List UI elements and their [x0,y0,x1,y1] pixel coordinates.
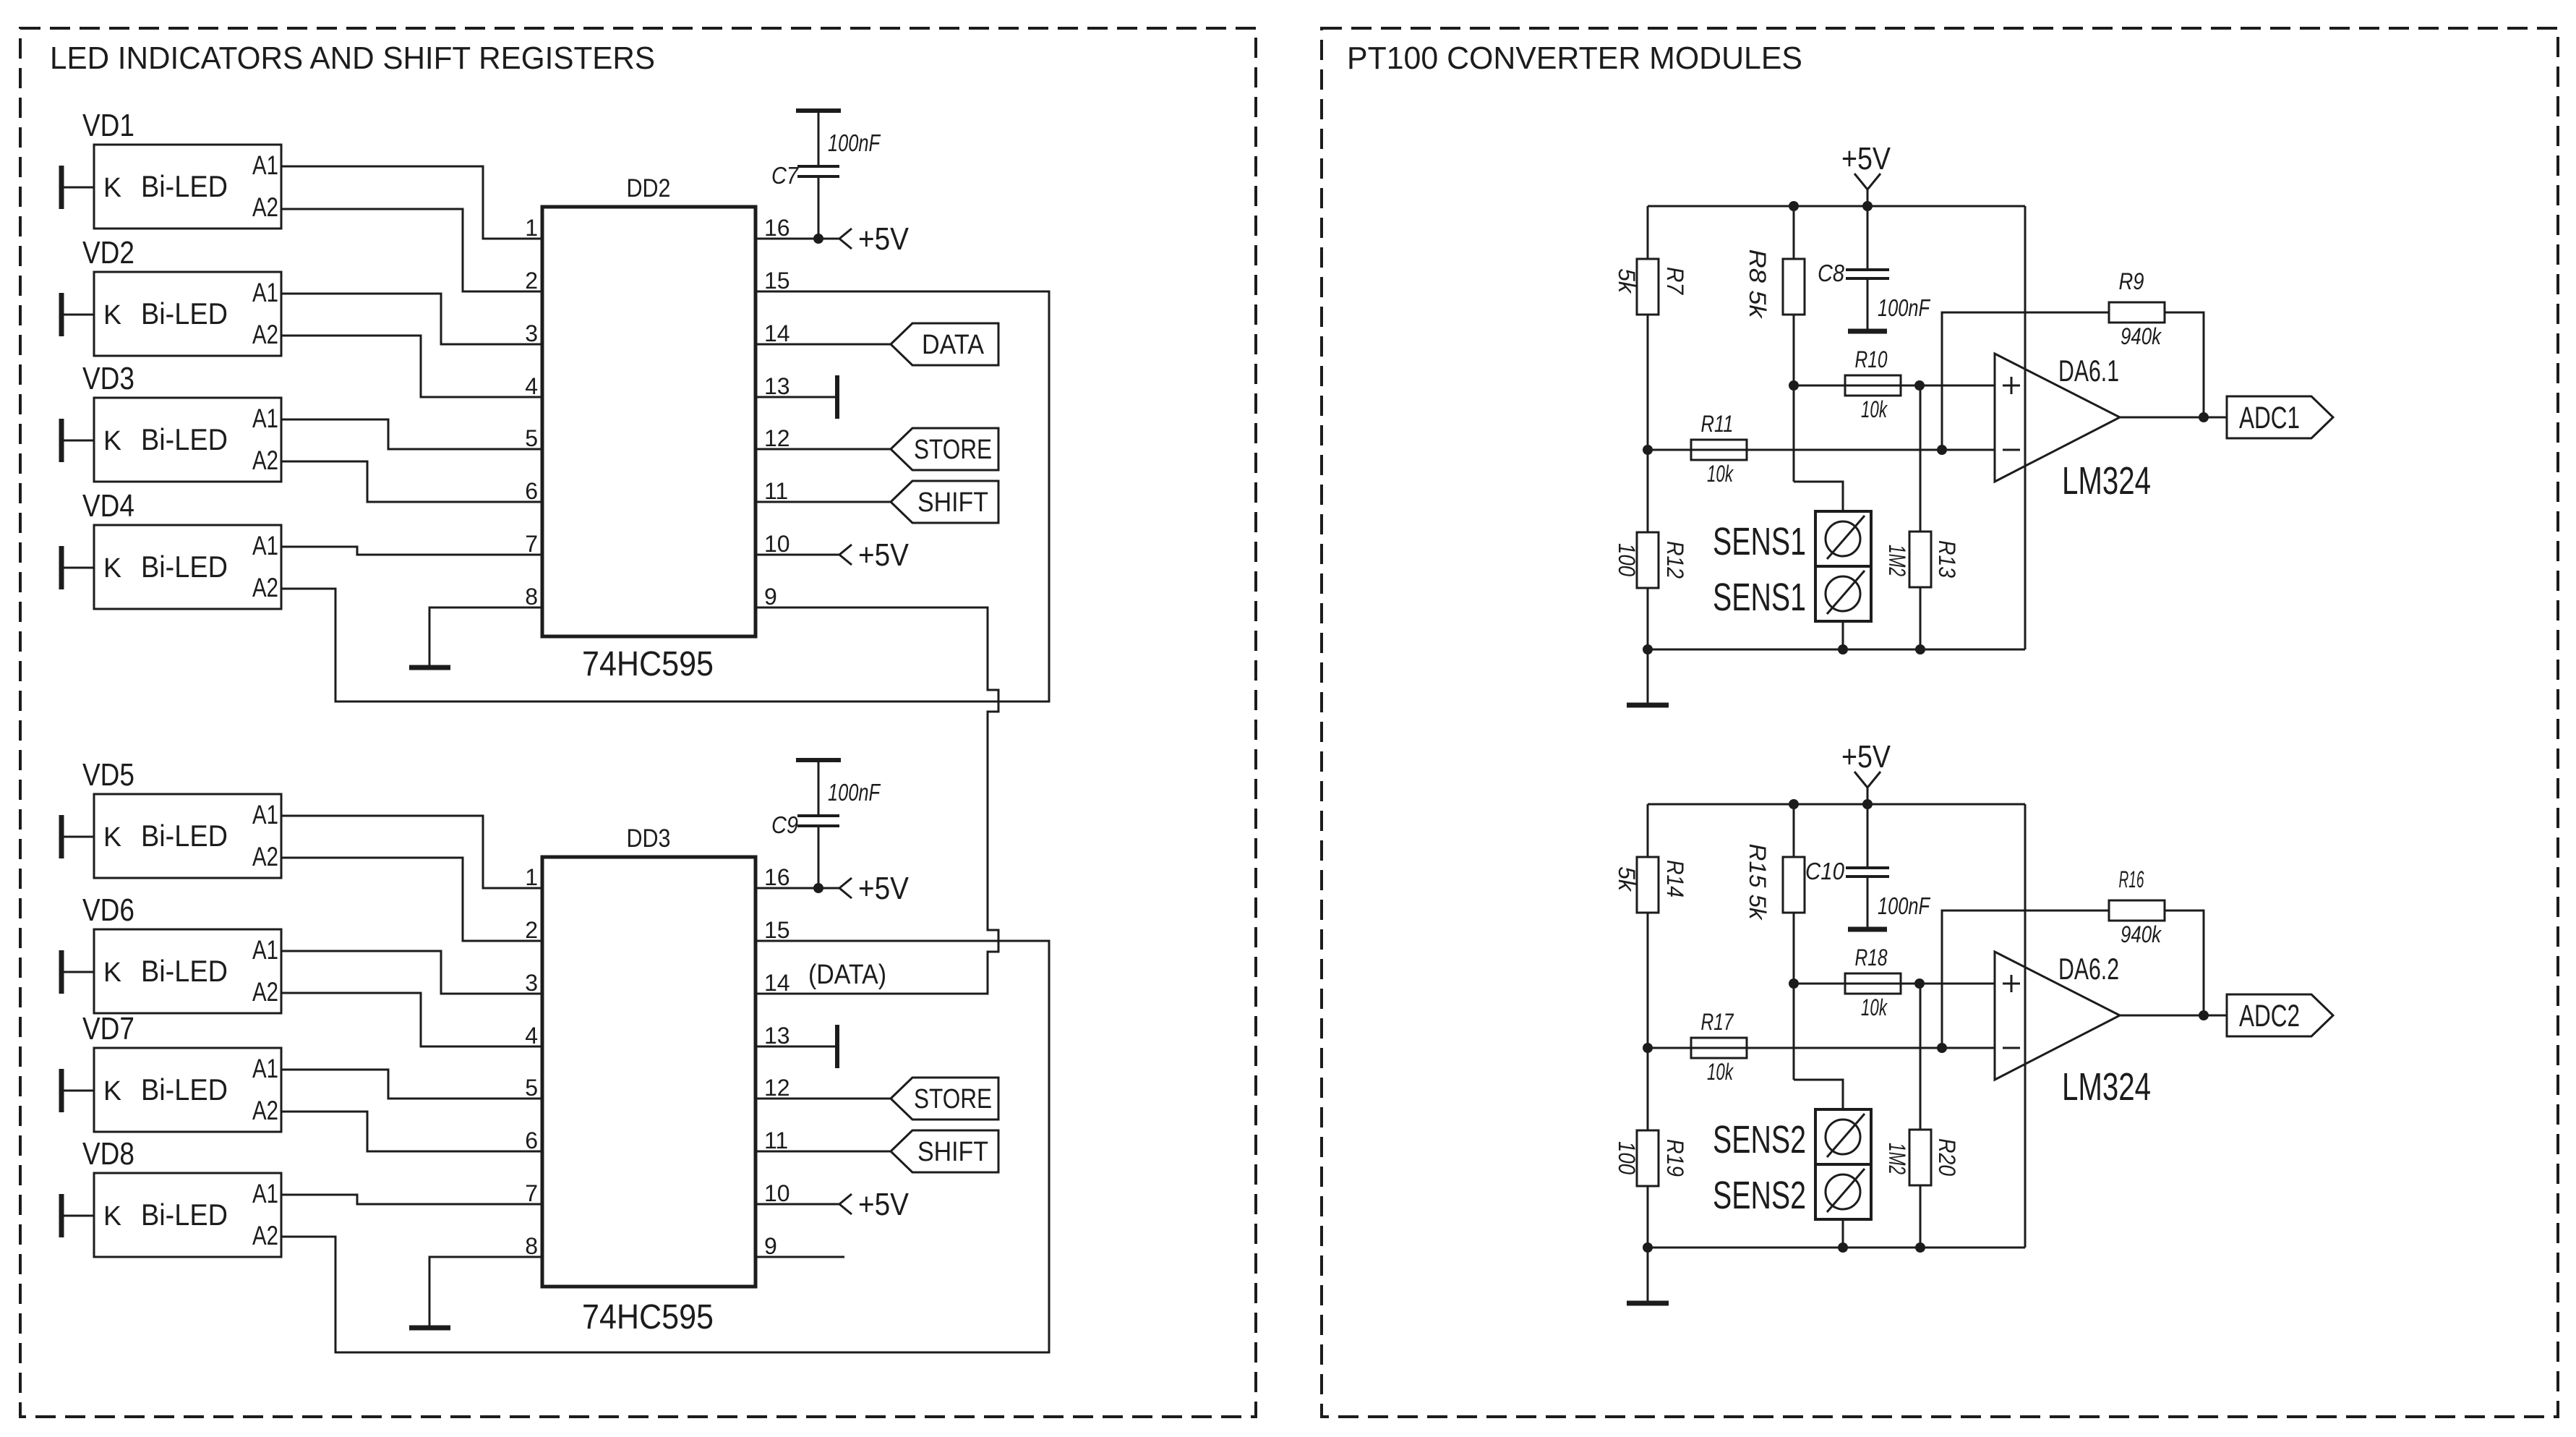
svg-text:R13: R13 [1934,540,1960,578]
svg-text:Bi-LED: Bi-LED [141,550,228,584]
capacitor C8 100nF [1818,206,1930,331]
flag STORE at DD2 pin 12 [756,428,998,470]
shift register DD2 74HC595 [542,174,756,683]
svg-text:ADC2: ADC2 [2239,999,2300,1033]
svg-text:SENS1: SENS1 [1713,520,1806,563]
svg-text:SENS1: SENS1 [1713,576,1806,619]
svg-text:1: 1 [525,864,538,890]
svg-text:VD3: VD3 [82,361,134,396]
svg-text:16: 16 [764,215,790,241]
svg-text:SHIFT: SHIFT [917,1137,988,1167]
svg-text:R17: R17 [1701,1009,1734,1035]
svg-text:A2: A2 [252,977,278,1007]
svg-text:+5V: +5V [858,537,910,573]
svg-text:+5V: +5V [858,1187,910,1222]
svg-text:5: 5 [525,425,538,451]
svg-text:K: K [103,173,121,203]
svg-text:9: 9 [764,1233,777,1259]
feedback wire module 2 [1942,911,2109,1048]
junction DD3 pin16 / C9 [813,883,823,893]
svg-text:15: 15 [764,268,790,294]
svg-text:+5V: +5V [1841,141,1891,176]
flag ADC1 [2227,396,2333,438]
junction R10/R13 module 1 [1914,380,1925,391]
svg-text:74HC595: 74HC595 [582,1298,714,1336]
wire VD1 A2 to DD2 pin2 [281,209,542,291]
svg-text:100nF: 100nF [1878,294,1930,321]
svg-text:K: K [103,1201,121,1232]
junction output/feedback module 1 [2199,412,2209,422]
bi-led VD8 [82,1136,281,1257]
svg-text:K: K [103,958,121,988]
svg-text:ADC1: ADC1 [2239,401,2300,435]
svg-text:R20: R20 [1934,1138,1960,1176]
resistor R18 10k [1794,945,1995,1020]
junction R14/R17 module 2 [1643,1043,1653,1053]
shift register DD3 74HC595 [542,824,756,1336]
svg-text:10k: 10k [1707,461,1734,487]
flag STORE at DD3 pin 12 [756,1078,998,1120]
svg-text:K: K [103,1076,121,1106]
capacitor C9 100nF [771,760,881,890]
flag ADC2 [2227,994,2333,1036]
svg-text:12: 12 [764,425,790,451]
cathode lead VD2 [61,293,94,336]
svg-text:Bi-LED: Bi-LED [141,1198,228,1232]
svg-text:Bi-LED: Bi-LED [141,422,228,456]
bi-led VD2 [82,235,281,356]
resistor R17 10k [1648,1009,1995,1085]
no-connect DD2 pin 13 [756,375,837,419]
svg-text:R10: R10 [1855,346,1888,372]
+5V at DD3 pin 16 [756,871,910,906]
svg-text:R11: R11 [1701,411,1734,437]
junction R18/R20 module 2 [1914,978,1925,989]
svg-text:Bi-LED: Bi-LED [141,1073,228,1106]
wire DD2 pin 15 [756,291,1049,293]
capacitor C7 100nF [771,111,881,240]
wire VD5 A1 to DD3 pin1 [281,816,542,888]
svg-text:A1: A1 [252,278,278,307]
capacitor C10 100nF [1805,804,1930,929]
junction R7/R11 module 1 [1643,445,1653,455]
junction output/feedback module 2 [2199,1010,2209,1020]
svg-text:10: 10 [764,1180,790,1206]
svg-text:14: 14 [764,970,790,996]
svg-text:3: 3 [525,970,538,996]
svg-text:1M2: 1M2 [1884,545,1910,576]
junction feedback/R17 module 2 [1937,1043,1947,1053]
flag SHIFT at DD2 pin 11 [756,481,998,523]
feedback wire module 1 [1942,312,2109,450]
svg-text:A1: A1 [252,531,278,560]
svg-text:3: 3 [525,320,538,346]
svg-text:C10: C10 [1805,858,1845,884]
svg-text:1M2: 1M2 [1884,1143,1910,1174]
bi-led VD4 [82,488,281,609]
junction rail/R15 module 2 [1789,799,1799,809]
junction R15/R18 module 2 [1789,978,1799,989]
svg-text:LED INDICATORS AND SHIFT REGIS: LED INDICATORS AND SHIFT REGISTERS [50,40,655,76]
svg-text:2: 2 [525,268,538,294]
svg-text:10k: 10k [1861,994,1888,1020]
wire VD6 A2 to DD3 pin4 [281,993,542,1046]
svg-text:DD2: DD2 [627,174,671,202]
cathode lead VD4 [61,546,94,589]
svg-text:R14: R14 [1662,860,1688,897]
bi-led VD3 [82,361,281,482]
svg-text:100: 100 [1614,543,1640,576]
ground at DD3 pin 8 [409,1257,542,1328]
svg-text:7: 7 [525,1180,538,1206]
svg-text:R8 5k: R8 5k [1745,250,1771,320]
resistor R8 5k [1745,206,1843,511]
svg-text:SENS2: SENS2 [1713,1118,1806,1161]
+5V at DD2 pin 10 [756,537,910,573]
wire op-amp output module 1 [2120,417,2227,419]
supply vertical module 2 [2024,804,2027,1248]
resistor R10 10k [1794,346,1995,422]
right panel dashed border [1322,28,2558,1417]
wire VD3 A1 to DD2 pin5 [281,419,542,449]
junction R8/R10 module 1 [1789,380,1799,391]
svg-text:1: 1 [525,215,538,241]
svg-text:A1: A1 [252,150,278,180]
svg-text:VD2: VD2 [82,235,134,270]
bottom rail module 1 [1648,649,2025,651]
svg-text:14: 14 [764,320,790,346]
wire DD2 pin9 to DD3 pin14 serial data [756,607,998,994]
svg-text:+5V: +5V [858,221,910,257]
svg-text:R18: R18 [1855,945,1888,971]
svg-text:R7: R7 [1662,267,1688,295]
resistor R11 10k [1648,411,1995,487]
svg-text:A1: A1 [252,935,278,965]
wire VD6 A1 to DD3 pin3 [281,951,542,994]
op-amp DA6.1 LM324 [1995,354,2151,503]
op-amp DA6.2 LM324 [1995,952,2151,1109]
junction bottom-rail left module 1 [1643,644,1653,654]
wire VD4 A2 to DD2 pin15 [281,291,1049,702]
svg-text:R19: R19 [1662,1139,1688,1177]
wire VD2 A2 to DD2 pin4 [281,336,542,397]
wire VD7 A1 to DD3 pin5 [281,1070,542,1099]
svg-text:VD4: VD4 [82,488,134,524]
svg-text:13: 13 [764,1023,790,1049]
cathode lead VD5 [61,815,94,858]
svg-text:DATA: DATA [922,330,985,360]
svg-text:10: 10 [764,531,790,557]
svg-text:STORE: STORE [914,1084,992,1114]
svg-text:11: 11 [764,478,788,504]
bi-led VD1 [82,108,281,229]
svg-text:11: 11 [764,1127,788,1154]
junction DD2 pin16 / C7 [813,234,823,244]
svg-text:100nF: 100nF [828,779,881,806]
svg-text:A1: A1 [252,404,278,433]
svg-text:DA6.2: DA6.2 [2058,952,2119,986]
svg-text:VD7: VD7 [82,1011,134,1046]
svg-text:9: 9 [764,584,777,610]
junction feedback/R11 module 1 [1937,445,1947,455]
bottom rail module 2 [1648,1247,2025,1249]
+5V supply module 1 [1841,141,1891,206]
svg-text:VD8: VD8 [82,1136,134,1172]
resistor R13 1M2 [1884,385,1960,649]
svg-text:A1: A1 [252,800,278,830]
wire VD8 A1 to DD3 pin7 [281,1195,542,1204]
ground module 2 [1627,1248,1669,1303]
svg-text:7: 7 [525,531,538,557]
svg-text:12: 12 [764,1075,790,1101]
svg-text:Bi-LED: Bi-LED [141,169,228,203]
supply vertical module 1 [2024,206,2027,649]
resistor R15 5k [1745,804,1843,1109]
svg-text:A2: A2 [252,573,278,602]
svg-text:100nF: 100nF [828,129,881,156]
svg-text:LM324: LM324 [2062,459,2151,503]
svg-text:A2: A2 [252,192,278,222]
svg-text:Bi-LED: Bi-LED [141,954,228,988]
svg-text:STORE: STORE [914,435,992,465]
bi-led VD7 [82,1011,281,1132]
svg-text:A1: A1 [252,1054,278,1083]
svg-text:DA6.1: DA6.1 [2058,354,2119,388]
svg-text:R9: R9 [2119,268,2144,294]
junction rail/C10 module 2 [1862,799,1873,809]
wire VD3 A2 to DD2 pin6 [281,461,542,502]
resistor R19 100 [1614,1048,1688,1248]
+5V at DD3 pin 10 [756,1187,910,1222]
svg-text:100: 100 [1614,1141,1640,1174]
bi-led VD5 [82,757,281,878]
svg-text:R16: R16 [2119,866,2144,892]
svg-text:Bi-LED: Bi-LED [141,819,228,853]
bi-led VD6 [82,892,281,1013]
cathode lead VD1 [61,166,94,209]
svg-text:A2: A2 [252,320,278,349]
svg-text:5k: 5k [1614,268,1640,294]
flag SHIFT at DD3 pin 11 [756,1130,998,1172]
svg-text:C7: C7 [771,162,799,189]
left panel dashed border [20,28,1256,1417]
svg-text:VD5: VD5 [82,757,134,793]
svg-text:5k: 5k [1614,866,1640,892]
wire VD5 A2 to DD3 pin2 [281,858,542,941]
svg-text:K: K [103,300,121,331]
svg-text:10k: 10k [1707,1059,1734,1085]
flag DATA at DD2 pin 14 [756,323,998,365]
svg-text:6: 6 [525,1127,538,1154]
ground module 1 [1627,649,1669,705]
cathode lead VD3 [61,419,94,462]
svg-text:4: 4 [525,373,538,399]
svg-text:C8: C8 [1818,260,1845,286]
svg-text:Bi-LED: Bi-LED [141,297,228,331]
no-connect DD3 pin 13 [756,1025,837,1068]
wire VD2 A1 to DD2 pin3 [281,294,542,344]
cathode lead VD8 [61,1194,94,1237]
junction bottom-rail left module 2 [1643,1242,1653,1253]
resistor R7 5k [1614,206,1688,450]
svg-text:6: 6 [525,478,538,504]
wire VD8 A2 to DD3 pin15 [281,941,1049,1352]
svg-text:A2: A2 [252,1221,278,1250]
wire op-amp output module 2 [2120,1015,2227,1017]
svg-text:R15 5k: R15 5k [1745,844,1771,921]
svg-text:100nF: 100nF [1878,892,1930,919]
wire VD1 A1 to DD2 pin1 [281,166,542,239]
svg-text:+5V: +5V [1841,739,1891,775]
svg-text:K: K [103,553,121,584]
sensor terminals SENS1 [1713,511,1871,649]
svg-text:A2: A2 [252,842,278,871]
svg-text:K: K [103,822,121,853]
svg-text:15: 15 [764,917,790,943]
cathode lead VD6 [61,950,94,994]
svg-text:R12: R12 [1662,541,1688,579]
svg-text:A2: A2 [252,445,278,475]
svg-text:940k: 940k [2121,921,2162,947]
sensor terminals SENS2 [1713,1109,1871,1248]
svg-text:+5V: +5V [858,871,910,906]
wire VD4 A1 to DD2 pin7 [281,547,542,555]
svg-text:13: 13 [764,373,790,399]
resistor R20 1M2 [1884,984,1960,1248]
svg-text:A1: A1 [252,1179,278,1208]
junction rail/R8 module 1 [1789,201,1799,211]
resistor R16 940k [2109,866,2204,1015]
+5V rail module 2 [1648,803,2025,806]
svg-text:940k: 940k [2121,323,2162,349]
junction R13/bottom rail module 1 [1915,644,1925,654]
resistor R14 5k [1614,804,1688,1048]
svg-text:10k: 10k [1861,396,1888,422]
svg-text:VD1: VD1 [82,108,134,143]
svg-text:74HC595: 74HC595 [582,645,714,683]
cathode lead VD7 [61,1069,94,1112]
svg-text:2: 2 [525,917,538,943]
svg-text:8: 8 [525,584,538,610]
+5V at DD2 pin 16 [756,221,910,257]
svg-text:C9: C9 [771,811,798,838]
svg-text:SENS2: SENS2 [1713,1174,1806,1217]
svg-text:PT100 CONVERTER MODULES: PT100 CONVERTER MODULES [1347,40,1802,76]
stub DD3 pin 9 [756,1256,844,1258]
junction SENS1/bottom rail module 1 [1838,644,1848,654]
svg-text:A2: A2 [252,1096,278,1125]
junction rail/C8 module 1 [1862,201,1873,211]
svg-text:4: 4 [525,1023,538,1049]
svg-text:5: 5 [525,1075,538,1101]
svg-text:8: 8 [525,1233,538,1259]
+5V rail module 1 [1648,205,2025,208]
junction SENS2/bottom rail module 2 [1838,1242,1848,1253]
junction R20/bottom rail module 2 [1915,1242,1925,1253]
wire VD7 A2 to DD3 pin6 [281,1112,542,1151]
svg-text:SHIFT: SHIFT [917,487,988,518]
ground at DD2 pin 8 [409,607,542,668]
svg-text:VD6: VD6 [82,892,134,928]
svg-text:(DATA): (DATA) [808,960,886,990]
svg-text:LM324: LM324 [2062,1065,2151,1109]
svg-text:K: K [103,426,121,456]
+5V supply module 2 [1841,739,1891,804]
svg-text:DD3: DD3 [627,824,671,853]
svg-text:16: 16 [764,864,790,890]
wire DD3 pin 15 [756,940,1049,942]
resistor R12 100 [1614,450,1688,649]
resistor R9 940k [2109,268,2204,417]
